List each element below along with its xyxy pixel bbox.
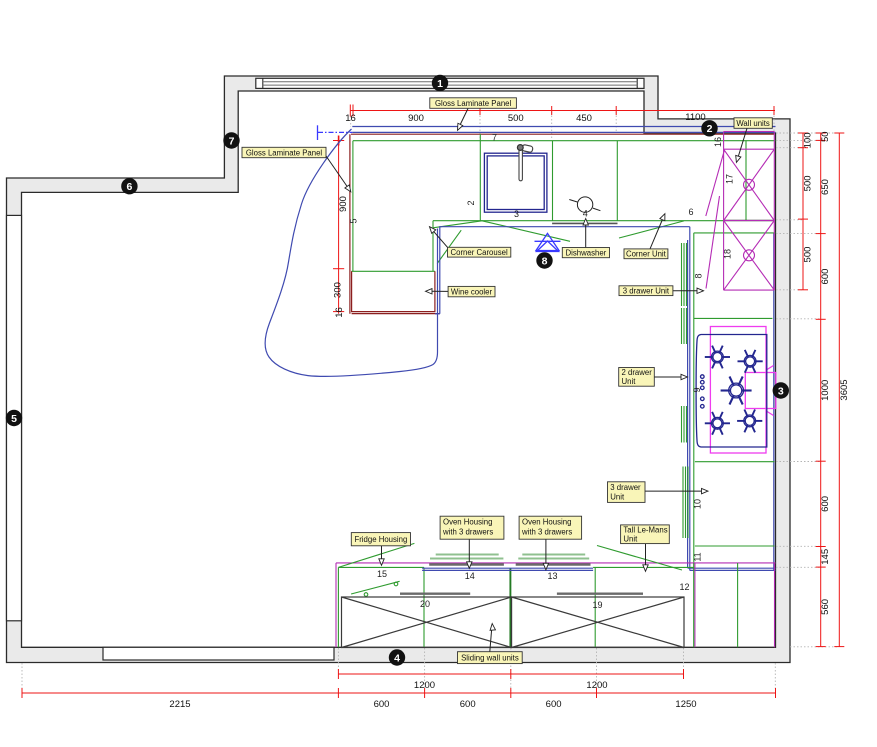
svg-text:600: 600: [460, 699, 476, 710]
dimension line bottom lower: [22, 688, 776, 698]
svg-text:Dishwasher: Dishwasher: [566, 248, 607, 257]
svg-text:Oven Housing: Oven Housing: [522, 518, 571, 527]
svg-text:500: 500: [803, 175, 814, 191]
label wall units: [734, 118, 772, 129]
svg-text:Tall Le-Mans: Tall Le-Mans: [623, 526, 667, 535]
svg-text:650: 650: [820, 179, 831, 195]
dishwasher circle: [577, 197, 592, 212]
position circle 6: [121, 178, 137, 194]
svg-text:9: 9: [692, 387, 702, 392]
dotted extension lines right: [776, 133, 839, 647]
hot cold triangle symbol: [535, 233, 561, 251]
drawer lines group unit9a: [682, 308, 687, 344]
sink cabinet right green: [552, 141, 554, 221]
oven housings worktop blue a: [422, 567, 593, 569]
tap stem: [519, 149, 522, 181]
svg-text:2215: 2215: [169, 699, 190, 710]
sink inner: [487, 156, 544, 210]
svg-text:8: 8: [542, 255, 548, 267]
tall units bottom green: [352, 270, 435, 272]
bottom run green top right: [593, 566, 694, 568]
dishwasher tick right: [593, 208, 601, 211]
worktop front top run blue: [440, 227, 690, 314]
worktop back edge blue lower: [352, 131, 775, 133]
worktop bottom right run a: [688, 567, 776, 569]
svg-text:600: 600: [820, 269, 831, 285]
svg-text:19: 19: [592, 600, 602, 610]
hob control dots: [701, 375, 705, 408]
svg-text:1000: 1000: [820, 380, 831, 401]
right run divider green 1: [694, 317, 773, 319]
corner carousel diag a: [433, 221, 482, 228]
svg-text:Wine cooler: Wine cooler: [451, 287, 493, 296]
gloss laminate panel top maroon: [351, 133, 775, 135]
svg-text:Sliding wall units: Sliding wall units: [461, 653, 519, 662]
dimension line top horizontal: [350, 105, 775, 117]
svg-text:10: 10: [693, 499, 703, 509]
svg-text:600: 600: [374, 699, 390, 710]
hob magenta surround: [710, 327, 766, 454]
wall unit swing 17: [706, 151, 725, 217]
svg-text:560: 560: [820, 599, 831, 615]
tall units back green: [353, 140, 776, 142]
label sliding wall units: [458, 652, 523, 664]
svg-text:1100: 1100: [685, 112, 705, 123]
svg-text:300: 300: [333, 282, 344, 298]
bottom run magenta top: [336, 562, 776, 564]
worktop back edge blue upper: [352, 126, 775, 128]
drawer lines group unit9b: [682, 406, 687, 443]
blue loop freeform: [265, 129, 437, 376]
position circle 8: [536, 252, 552, 268]
svg-text:18: 18: [723, 249, 733, 259]
svg-text:16: 16: [334, 307, 345, 318]
svg-text:Fridge Housing: Fridge Housing: [354, 535, 407, 544]
wall units left magenta: [723, 132, 725, 291]
svg-text:with 3 drawers: with 3 drawers: [442, 528, 493, 537]
leader fridge housing: [379, 546, 384, 566]
right run divider green 2: [695, 461, 775, 463]
label 3 drawer unit upper: [619, 286, 673, 296]
dotted extension lines top: [351, 112, 774, 140]
worktop front right run blue outer: [689, 227, 691, 571]
burner small 3: [705, 412, 730, 435]
fridge handle diag green: [351, 581, 400, 594]
svg-text:3: 3: [514, 209, 519, 219]
hob navy outline: [696, 335, 767, 448]
label wine cooler: [448, 286, 495, 296]
svg-text:Corner Unit: Corner Unit: [626, 250, 667, 259]
wall unit 16 bottom: [724, 148, 775, 150]
leader 2 drawer unit: [654, 374, 687, 379]
svg-text:20: 20: [420, 599, 430, 609]
rail gray bar 19: [557, 593, 643, 595]
wall units top magenta: [724, 131, 775, 133]
label gloss laminate panel top: [430, 98, 517, 109]
svg-text:4: 4: [583, 209, 588, 219]
svg-text:50: 50: [820, 131, 831, 142]
wine cooler maroon box: [352, 271, 435, 311]
wall unit 17 18 divider dark: [724, 220, 775, 222]
label gloss laminate panel left: [242, 147, 326, 157]
window bottom wall: [103, 647, 334, 660]
fridge swing green: [338, 543, 414, 567]
svg-text:900: 900: [338, 196, 349, 212]
wall units right magenta: [773, 132, 775, 291]
wall outline (gray masonry): [7, 76, 791, 663]
lemans swing green: [597, 546, 682, 571]
oven vent lines 13: [518, 555, 589, 559]
oven gray bar 14: [429, 563, 504, 565]
fridge dot 1: [394, 582, 398, 586]
position circle 2: [701, 120, 717, 136]
drawer lines group unit8: [682, 243, 687, 306]
svg-text:5: 5: [11, 413, 17, 425]
svg-text:2: 2: [466, 200, 476, 205]
svg-text:12: 12: [679, 582, 689, 592]
leader wine cooler: [426, 289, 449, 294]
leader wall units: [734, 128, 747, 163]
dishwasher right green: [616, 141, 618, 221]
svg-text:4: 4: [394, 652, 400, 664]
hidden dashed line left: [318, 131, 352, 133]
dishwasher plinth: [552, 222, 617, 224]
svg-text:Gloss Laminate Panel: Gloss Laminate Panel: [246, 148, 323, 157]
label dishwasher: [562, 248, 609, 258]
dimension line bottom upper 1200s: [338, 669, 683, 679]
svg-text:8: 8: [694, 273, 704, 278]
svg-text:7: 7: [492, 133, 497, 143]
leader corner unit: [650, 213, 667, 249]
position circle 3: [773, 382, 789, 398]
svg-text:500: 500: [508, 113, 524, 124]
leader oven housing 1: [467, 539, 472, 568]
wall unit 18 X: [724, 221, 775, 291]
tap handle: [522, 144, 534, 152]
right run divider green 3: [695, 545, 775, 547]
position circle 1: [432, 75, 448, 91]
svg-text:Gloss Laminate Panel: Gloss Laminate Panel: [435, 99, 512, 108]
label oven housing 2: [519, 516, 582, 539]
svg-text:500: 500: [803, 247, 814, 263]
svg-text:100: 100: [803, 132, 814, 148]
bottom run magenta div1: [694, 563, 696, 647]
svg-text:13: 13: [547, 571, 557, 581]
bottom corner green divider: [737, 563, 739, 647]
leader gloss panel left: [326, 156, 353, 194]
leader 3 drawer unit upper: [673, 288, 704, 293]
svg-text:11: 11: [693, 552, 703, 561]
leader oven housing 2: [543, 539, 548, 570]
svg-text:3 drawer: 3 drawer: [610, 483, 641, 492]
drawer lines group unit10: [683, 467, 688, 539]
label fridge housing: [351, 533, 410, 546]
label corner carousel: [448, 247, 511, 257]
base cabinets front green: [433, 220, 724, 222]
sliding box 19: [512, 597, 685, 648]
burner large center: [721, 377, 752, 405]
worktop cap blue: [435, 313, 440, 315]
svg-text:600: 600: [546, 699, 562, 710]
label 2 drawer unit: [619, 368, 655, 387]
worktop bottom right run b: [690, 569, 776, 571]
label 3 drawer unit lower: [608, 482, 646, 503]
position circle 5: [6, 410, 22, 426]
svg-text:6: 6: [126, 181, 132, 193]
svg-text:14: 14: [465, 571, 475, 581]
position circle 4: [389, 649, 405, 665]
sliding box 20: [342, 597, 512, 648]
svg-text:17: 17: [725, 174, 735, 184]
tall units right green: [432, 221, 434, 272]
dimension line left vertical: [333, 136, 344, 314]
tap base: [517, 145, 523, 151]
svg-text:Unit: Unit: [610, 493, 625, 502]
corner cab divider green: [745, 141, 747, 221]
svg-text:1: 1: [437, 78, 443, 90]
svg-text:7: 7: [229, 135, 235, 147]
worktop back right run navy: [773, 233, 775, 570]
right run cabinet front green: [693, 233, 695, 563]
svg-text:2: 2: [707, 123, 713, 135]
svg-text:3: 3: [778, 385, 784, 397]
svg-text:15: 15: [377, 569, 387, 579]
window top wall: [256, 78, 644, 88]
gloss laminate panel left maroon: [349, 134, 351, 314]
bottom run magenta right: [774, 563, 776, 647]
window left wall: [7, 215, 22, 620]
svg-text:900: 900: [408, 113, 424, 124]
dotted extension lines bottom: [22, 648, 775, 691]
oven gray bar 13: [516, 563, 591, 565]
bottom run green top left: [338, 566, 424, 568]
sink cabinet left green: [479, 134, 481, 221]
position circle 7: [223, 132, 239, 148]
corner carousel diag b: [482, 221, 570, 242]
leader gloss panel top: [455, 109, 468, 132]
leader tall lemans: [643, 544, 648, 572]
label oven housing 1: [440, 516, 504, 539]
wall unit 18 bottom: [724, 289, 775, 291]
burner small 1: [705, 346, 730, 369]
right run cabinet top green: [694, 232, 776, 234]
wine cooler bottom maroon: [352, 313, 440, 315]
svg-text:3 drawer Unit: 3 drawer Unit: [623, 286, 670, 295]
svg-text:600: 600: [820, 496, 831, 512]
leader 3 drawer unit lower: [645, 488, 708, 493]
bottom run magenta left: [335, 563, 337, 647]
label corner unit: [624, 249, 668, 259]
svg-text:16: 16: [345, 113, 356, 124]
leader sliding wall units: [490, 623, 496, 651]
svg-text:Wall units: Wall units: [736, 119, 770, 128]
wall unit 17 bottom: [724, 220, 775, 222]
svg-text:1250: 1250: [675, 699, 696, 710]
leader corner carousel: [427, 225, 447, 247]
oven vent lines 14: [430, 555, 503, 559]
svg-text:Oven Housing: Oven Housing: [443, 518, 492, 527]
hidden dashed tick: [317, 125, 319, 140]
dimension line right inner: [798, 133, 808, 290]
burner small 2: [738, 350, 763, 373]
corner carousel diag c: [437, 230, 461, 263]
svg-text:Corner Carousel: Corner Carousel: [450, 248, 507, 257]
svg-text:2 drawer: 2 drawer: [622, 368, 653, 377]
rail gray bar 20: [400, 593, 470, 595]
tall units left green: [352, 141, 354, 272]
svg-text:145: 145: [820, 549, 831, 565]
dimension line right outer 3605: [834, 133, 844, 647]
bottom run green verticals: [338, 563, 693, 647]
dimension line right middle: [816, 133, 826, 647]
svg-text:16: 16: [713, 137, 723, 147]
svg-text:5: 5: [349, 218, 359, 223]
dishwasher tick left: [569, 200, 577, 203]
svg-text:Unit: Unit: [622, 377, 637, 386]
svg-text:3605: 3605: [839, 379, 850, 400]
leader dishwasher: [583, 219, 588, 248]
svg-text:450: 450: [576, 113, 592, 124]
oven housings worktop blue b: [422, 569, 593, 571]
fridge dot 2: [364, 593, 368, 597]
svg-text:with 3 drawers: with 3 drawers: [521, 528, 572, 537]
svg-text:6: 6: [688, 207, 693, 217]
svg-text:Unit: Unit: [623, 535, 638, 544]
worktop front right run blue inner: [687, 240, 689, 568]
wall unit 17 X: [724, 149, 775, 220]
hob notch magenta: [745, 366, 776, 416]
burner small 4: [737, 410, 762, 433]
sink outer: [484, 153, 547, 212]
label tall lemans unit: [621, 525, 670, 544]
corner unit diag green: [619, 221, 684, 238]
wall unit swing 18: [706, 196, 720, 289]
